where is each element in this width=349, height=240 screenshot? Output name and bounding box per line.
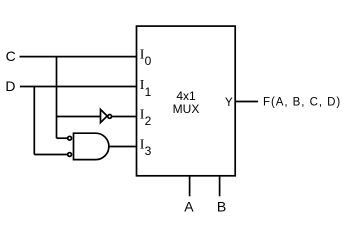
wire vertical branch from C [56, 57, 58, 139]
inverter U2 triangle [101, 109, 108, 122]
svg-text:Y: Y [225, 97, 233, 109]
inverter U2 output bubble [108, 115, 112, 119]
wire nand output to I3 [109, 146, 137, 148]
svg-text:2: 2 [145, 114, 152, 128]
wire inverter output to I2 [112, 116, 137, 118]
wire to nand bottom input [34, 154, 68, 156]
wire to nand top input [57, 137, 68, 139]
svg-text:4x1: 4x1 [176, 89, 196, 103]
wire to inverter input [57, 116, 101, 118]
svg-text:0: 0 [145, 54, 152, 68]
svg-text:D: D [5, 78, 15, 94]
wire select B stub [219, 176, 221, 197]
svg-text:1: 1 [145, 85, 152, 99]
svg-text:A: A [184, 199, 194, 215]
wire D to I1 [20, 86, 137, 88]
svg-text:3: 3 [145, 144, 152, 158]
nand gate U3 body [74, 133, 109, 159]
wire C to I0 [20, 56, 138, 58]
wire Y output [235, 101, 258, 103]
wire select A stub [189, 176, 191, 197]
svg-text:B: B [217, 199, 226, 215]
mux box U1 (4x1 MUX) [137, 26, 236, 176]
svg-text:MUX: MUX [173, 102, 200, 116]
nand gate U3 top input bubble [68, 136, 72, 140]
nand gate U3 bottom input bubble [68, 153, 72, 157]
svg-text:C: C [6, 48, 16, 64]
wire vertical branch from D [33, 87, 35, 155]
svg-text:F(A, B, C, D): F(A, B, C, D) [263, 96, 341, 108]
